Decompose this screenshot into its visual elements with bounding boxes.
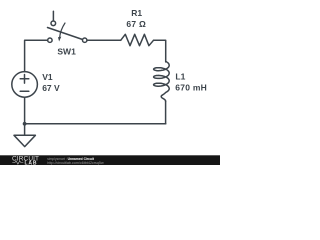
wire: V1 bottom to junction (24, 97, 26, 124)
switch SW1 common contact (83, 38, 87, 42)
svg-text:V1: V1 (42, 72, 53, 82)
svg-text:SW1: SW1 (57, 47, 76, 57)
wire: L1 bottom to bottom rail (165, 101, 167, 124)
V1 minus sign (20, 90, 29, 92)
switch SW1 arrow head (58, 37, 61, 42)
switch SW1 actuation arrow arc (60, 23, 65, 37)
ground stem (24, 124, 26, 136)
svg-text:LAB: LAB (25, 160, 38, 165)
svg-text:67 Ω: 67 Ω (126, 19, 146, 29)
wire: switch left throw to top-left corner down to V1 top (25, 40, 48, 71)
footer bar (0, 155, 220, 165)
switch SW1 left throw contact (48, 38, 52, 42)
svg-text:670 mH: 670 mH (175, 83, 207, 93)
inductor L1 coil (154, 62, 170, 101)
svg-text:L1: L1 (175, 72, 185, 82)
V1 plus sign (20, 75, 29, 84)
resistor R1 zigzag (121, 34, 154, 45)
svg-text:simplysmart : Unnamed Circuit: simplysmart : Unnamed Circuit (47, 157, 95, 161)
switch SW1 blade (48, 28, 83, 40)
wire: switch common to resistor left lead (87, 39, 121, 41)
footer logo CIRCUIT LAB (12, 156, 39, 167)
ground triangle (14, 135, 35, 146)
wire: bottom rail (25, 123, 166, 125)
svg-text:R1: R1 (131, 8, 142, 18)
footer text (47, 157, 104, 165)
voltage source V1 circle (12, 72, 38, 98)
wire: switch SW1 top stub (52, 11, 54, 21)
svg-text:67 V: 67 V (42, 83, 60, 93)
junction dot at V1/ground node (23, 122, 27, 126)
wire: resistor right lead to top-right corner down to L1 top (154, 40, 166, 62)
svg-text:http://circuitlab.com/c6tbt42c: http://circuitlab.com/c6tbt42crsq5w (47, 161, 104, 165)
switch SW1 top throw contact (51, 21, 56, 26)
